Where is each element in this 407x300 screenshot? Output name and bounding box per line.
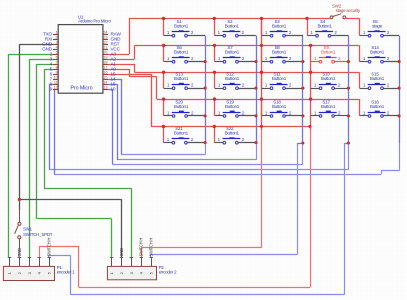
svg-text:Button1: Button1: [321, 104, 336, 109]
svg-text:stage: stage: [372, 24, 383, 29]
svg-text:GND: GND: [17, 248, 22, 257]
svg-text:8: 8: [56, 65, 58, 69]
svg-text:22: 22: [103, 40, 107, 44]
svg-text:Button1: Button1: [174, 76, 189, 81]
svg-text:20: 20: [103, 50, 107, 54]
svg-text:SWITCH H: SWITCH H: [149, 238, 154, 257]
svg-text:9: 9: [56, 70, 58, 74]
svg-text:Button1: Button1: [321, 50, 336, 55]
svg-text:24: 24: [103, 30, 107, 34]
svg-text:Button1: Button1: [370, 76, 385, 81]
svg-text:Button1: Button1: [174, 104, 189, 109]
svg-text:14: 14: [103, 80, 107, 84]
svg-text:encoder 1: encoder 1: [57, 270, 75, 275]
svg-text:Button1: Button1: [272, 50, 287, 55]
svg-text:SWITCH H: SWITCH H: [47, 238, 52, 257]
svg-text:Arduino Pro Micro: Arduino Pro Micro: [78, 19, 111, 24]
svg-text:Button1: Button1: [272, 76, 287, 81]
svg-text:Button1: Button1: [272, 24, 287, 29]
svg-text:Button1: Button1: [225, 24, 240, 29]
svg-text:encoder 2: encoder 2: [159, 270, 177, 275]
svg-text:Button1: Button1: [272, 104, 287, 109]
svg-text:Button1: Button1: [317, 24, 332, 29]
svg-text:7: 7: [56, 60, 58, 64]
svg-text:Button1: Button1: [370, 104, 385, 109]
svg-text:SWITCH H: SWITCH H: [139, 238, 144, 257]
svg-text:23: 23: [103, 35, 107, 39]
svg-text:GND: GND: [119, 248, 124, 257]
svg-text:1: 1: [56, 30, 58, 34]
svg-text:Button1: Button1: [174, 50, 189, 55]
svg-text:11: 11: [54, 80, 58, 84]
svg-text:Button1: Button1: [321, 76, 336, 81]
svg-text:Button1: Button1: [225, 50, 240, 55]
svg-text:Button1: Button1: [370, 50, 385, 55]
svg-text:Button1: Button1: [225, 104, 240, 109]
svg-text:10: 10: [54, 75, 58, 79]
svg-text:13: 13: [103, 85, 107, 89]
svg-text:stage security: stage security: [336, 8, 361, 13]
svg-text:3: 3: [56, 40, 58, 44]
svg-text:6: 6: [56, 55, 58, 59]
svg-text:5: 5: [56, 50, 58, 54]
svg-text:Button1: Button1: [174, 24, 189, 29]
svg-text:15: 15: [103, 75, 107, 79]
svg-text:4: 4: [56, 45, 58, 49]
svg-text:Button1: Button1: [225, 76, 240, 81]
svg-text:Button1: Button1: [174, 131, 189, 136]
svg-text:16: 16: [103, 70, 107, 74]
svg-text:Button1: Button1: [225, 131, 240, 136]
svg-text:18: 18: [103, 60, 107, 64]
svg-text:19: 19: [103, 55, 107, 59]
svg-text:21: 21: [103, 45, 107, 49]
svg-text:17: 17: [103, 65, 107, 69]
svg-text:2: 2: [56, 35, 58, 39]
svg-text:12: 12: [54, 85, 58, 89]
svg-text:SWITCH_SPDT: SWITCH_SPDT: [23, 232, 53, 237]
svg-text:10: 10: [111, 87, 116, 92]
svg-text:Pro Micro: Pro Micro: [70, 85, 92, 91]
